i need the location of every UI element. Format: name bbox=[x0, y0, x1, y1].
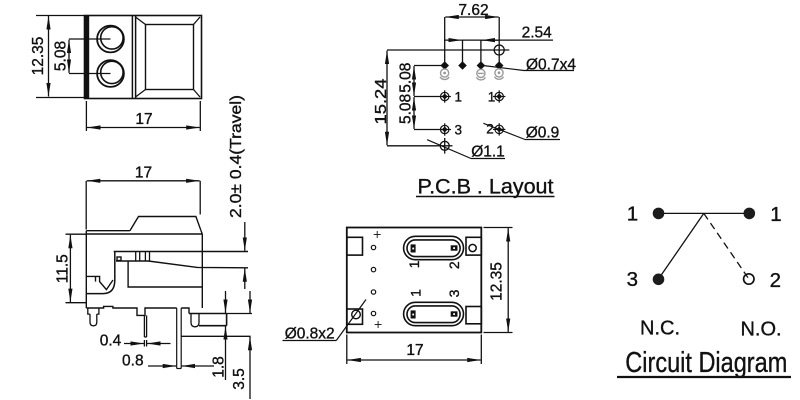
dimension 17 (bottom view) bbox=[347, 335, 482, 365]
svg-text:Ø0.8x2: Ø0.8x2 bbox=[285, 325, 335, 342]
internal small square bbox=[117, 257, 121, 261]
svg-text:0.4: 0.4 bbox=[100, 333, 122, 350]
dimension 1.8 (flange thickness) bbox=[225, 291, 227, 380]
label N.O. bbox=[740, 318, 781, 340]
N.O. contact wire (dashed) bbox=[704, 213, 749, 278]
svg-text:2: 2 bbox=[486, 122, 494, 137]
svg-text:N.C.: N.C. bbox=[640, 318, 680, 340]
svg-text:15.24: 15.24 bbox=[373, 78, 390, 124]
pin notch extension line bbox=[181, 335, 250, 337]
svg-text:5.08: 5.08 bbox=[398, 94, 415, 124]
svg-text:7.62: 7.62 bbox=[458, 2, 488, 19]
svg-text:Ø0.7x4: Ø0.7x4 bbox=[526, 56, 576, 73]
small cross bottom bbox=[375, 321, 382, 328]
svg-text:1: 1 bbox=[488, 89, 496, 104]
corner square bottom-right bbox=[466, 307, 481, 324]
corner square top-right bbox=[466, 237, 481, 255]
corner square bottom-left bbox=[347, 309, 363, 324]
svg-text:N.O.: N.O. bbox=[740, 318, 781, 340]
button hole circle 2 bbox=[97, 60, 124, 87]
side view flange bbox=[189, 314, 227, 326]
svg-text:1: 1 bbox=[770, 203, 781, 226]
big hole (1.1) bbox=[437, 138, 453, 154]
svg-text:3.5: 3.5 bbox=[231, 368, 248, 390]
svg-text:Ø0.9: Ø0.9 bbox=[526, 125, 560, 142]
small guide circles bbox=[371, 245, 375, 315]
top view body outline bbox=[85, 16, 202, 99]
svg-text:11.5: 11.5 bbox=[55, 254, 72, 283]
corner square top-left bbox=[347, 237, 363, 255]
dimension 3.5 (pin standoff) bbox=[249, 291, 251, 399]
dimension chain 5.08 / 5.08 bbox=[414, 66, 441, 130]
small cross top bbox=[374, 231, 381, 238]
hole pin 1 left bbox=[439, 89, 462, 104]
svg-text:2.0± 0.4(Travel): 2.0± 0.4(Travel) bbox=[228, 95, 245, 218]
N.C. contact wire bbox=[658, 213, 704, 279]
hole column extension lines bbox=[445, 17, 500, 63]
svg-text:P.C.B . Layout: P.C.B . Layout bbox=[418, 175, 554, 199]
svg-text:2: 2 bbox=[446, 261, 462, 269]
svg-text:5.08: 5.08 bbox=[398, 63, 415, 93]
dimension 12.35 (bottom view) bbox=[484, 228, 513, 333]
top slot (stadium) bbox=[404, 236, 464, 259]
internal hook inner bbox=[86, 276, 113, 289]
top slot pads bbox=[411, 244, 458, 252]
svg-text:3: 3 bbox=[454, 123, 462, 138]
side view middle thin pin (0.4) bbox=[144, 315, 146, 346]
svg-text:1: 1 bbox=[454, 89, 462, 104]
hole pin 3 bbox=[439, 123, 462, 138]
top view thick left wall bbox=[84, 15, 89, 99]
svg-text:2.54: 2.54 bbox=[522, 25, 553, 42]
dimension 0.4 (thin pin) bbox=[100, 333, 122, 350]
flange top extension line bbox=[227, 313, 252, 315]
internal cavity bbox=[128, 261, 202, 287]
dimension 2.0±0.4(Travel) bbox=[228, 95, 245, 218]
internal line B (sloped) bbox=[116, 261, 248, 268]
dimension 11.5 (side view height) bbox=[66, 234, 87, 303]
svg-text:1: 1 bbox=[627, 203, 638, 226]
svg-text:1: 1 bbox=[407, 289, 423, 297]
hole pin 2 bbox=[486, 122, 505, 137]
label Ø0.7x4 bbox=[483, 56, 576, 73]
keycap inner rect bbox=[146, 25, 194, 90]
svg-text:Ø1.1: Ø1.1 bbox=[471, 144, 505, 161]
svg-text:1: 1 bbox=[406, 260, 422, 268]
side view body outline bbox=[86, 217, 202, 309]
title P.C.B. Layout bbox=[416, 175, 555, 199]
svg-text:Circuit Diagram: Circuit Diagram bbox=[625, 347, 787, 379]
dimension 7.62 bbox=[445, 16, 498, 18]
dimension 17 (side view width) bbox=[86, 181, 200, 230]
circle in top-right square bbox=[469, 244, 476, 251]
keycap bevel diagonals bbox=[136, 17, 201, 97]
dimension 5.08 (circle spacing) bbox=[69, 39, 111, 74]
label Ø0.9 bbox=[483, 123, 560, 141]
button hole circle 1 bbox=[97, 26, 124, 53]
15.24 bottom extension line bbox=[387, 145, 437, 147]
label Ø1.1 bbox=[427, 140, 505, 161]
internal hook outer bbox=[86, 252, 115, 294]
bottom slot labels 1 3 bbox=[407, 289, 462, 298]
terminal 1 left bbox=[627, 203, 665, 226]
svg-text:3: 3 bbox=[627, 268, 638, 291]
terminal 3 bbox=[627, 268, 665, 291]
hole diamonds row 1 bbox=[440, 61, 503, 70]
side view left pin bbox=[88, 308, 99, 326]
svg-text:12.35: 12.35 bbox=[30, 37, 47, 76]
top slot labels 1 2 bbox=[406, 260, 462, 269]
reference hole circle (top right) bbox=[494, 45, 504, 55]
hole pin 1 right bbox=[488, 89, 506, 104]
svg-text:17: 17 bbox=[135, 111, 152, 128]
svg-text:17: 17 bbox=[406, 342, 423, 359]
label Ø0.8x2 bbox=[283, 300, 367, 343]
mounting circle in bottom-left square bbox=[352, 310, 361, 319]
internal line A (slider top) bbox=[114, 251, 248, 253]
bottom slot pads bbox=[411, 310, 458, 318]
terminal 2 (open) bbox=[744, 269, 781, 292]
svg-text:2: 2 bbox=[770, 269, 781, 292]
side view long pin (0.8) bbox=[177, 308, 182, 369]
label N.C. bbox=[640, 318, 680, 340]
ghost hole circles row 1 bbox=[440, 69, 503, 80]
common wire bbox=[658, 212, 749, 214]
dimension 17 (view A width) bbox=[86, 101, 200, 131]
title Circuit Diagram bbox=[617, 347, 791, 379]
svg-text:1.8: 1.8 bbox=[211, 356, 228, 378]
top view divider line bbox=[132, 16, 135, 99]
svg-text:3: 3 bbox=[446, 289, 462, 297]
terminal 1 right bbox=[744, 203, 782, 226]
side view right pin bbox=[191, 314, 199, 327]
svg-text:0.8: 0.8 bbox=[122, 353, 144, 370]
internal tick marks bbox=[136, 252, 150, 261]
dimension 2.54 bbox=[444, 39, 553, 41]
dimension 15.24 bbox=[386, 51, 388, 146]
svg-text:17: 17 bbox=[135, 165, 152, 182]
bottom slot (stadium) bbox=[404, 302, 464, 325]
svg-text:12.35: 12.35 bbox=[489, 262, 506, 301]
bottom view outline bbox=[347, 228, 482, 333]
15.24 top extension line bbox=[387, 49, 509, 51]
dimension 0.8 (long pin) bbox=[122, 353, 144, 370]
side view bottom edge with pin stubs bbox=[86, 306, 189, 315]
svg-text:5.08: 5.08 bbox=[53, 41, 70, 71]
dimension 12.35 (view A height) bbox=[36, 16, 84, 98]
